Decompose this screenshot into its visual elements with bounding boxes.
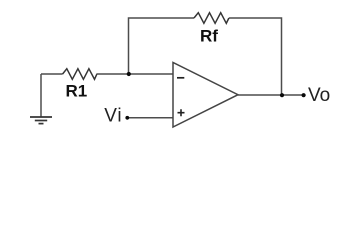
svg-text:R1: R1	[66, 82, 88, 101]
svg-text:Rf: Rf	[200, 27, 218, 46]
svg-text:Vo: Vo	[308, 85, 330, 106]
svg-text:Vi: Vi	[104, 105, 122, 126]
